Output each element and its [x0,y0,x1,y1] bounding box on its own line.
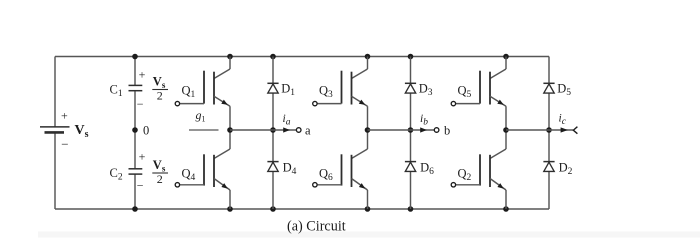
node c open chevron [573,127,577,134]
wire diode column 2 [410,57,412,210]
svg-text:+: + [139,150,146,164]
junction node c junction [546,127,552,133]
junction bottom rail at D4 col [270,206,276,212]
transistor Q2 [451,130,506,209]
junction node a junction [270,127,276,133]
svg-text:0: 0 [143,124,149,138]
junction node b junction [408,127,414,133]
diode D6 [405,161,434,178]
caption (a) Circuit [287,219,346,235]
svg-text:−: − [137,179,144,193]
label Vs/2 for C2 [152,158,168,186]
junction top rail at cap branch [132,54,138,60]
capacitor C2 [110,150,146,193]
junction bottom rail at leg2 [365,206,371,212]
junction bottom rail at leg1 [227,206,233,212]
transistor Q1 [175,57,230,131]
label g1 [196,108,206,124]
label Vs/2 for C1 [152,75,168,103]
wire g1 lead dash [189,129,219,131]
junction leg3 mid [503,127,509,133]
transistor Q6 [313,130,368,209]
svg-text:+: + [139,68,146,82]
current arrow ia [283,113,291,133]
transistor Q5 [451,57,506,131]
junction top rail at leg3 [503,54,509,60]
capacitor C1 [110,68,146,112]
wire diode column 1 [272,57,274,210]
junction top rail at leg2 [365,54,371,60]
wire left edge lower [54,133,56,209]
diode D1 [267,82,295,99]
svg-text:b: b [444,124,450,138]
svg-text:−: − [61,137,68,152]
junction top rail at D3 col [408,54,414,60]
junction bottom rail at D6 col [408,206,414,212]
diode D4 [267,161,296,178]
wire cap branch upper [134,57,136,86]
wire cap branch middle [134,91,136,168]
svg-text:2: 2 [157,172,163,186]
current arrow ib [420,113,428,133]
junction top rail at leg1 [227,54,233,60]
wire top rail [55,56,549,58]
wire bottom rail [55,208,549,210]
transistor Q4 [175,130,230,209]
node a [296,123,311,137]
diode D2 [543,161,572,178]
wire phase c [506,129,573,131]
current arrow ic [559,113,569,133]
battery Vs [40,109,89,152]
junction bottom rail at leg3 [503,206,509,212]
junction bottom rail at cap branch [132,206,138,212]
junction leg1 mid [227,127,233,133]
svg-text:+: + [61,109,68,123]
junction top rail at D1 col [270,54,276,60]
wire right edge [548,57,550,210]
svg-text:−: − [137,97,144,111]
svg-text:2: 2 [157,89,163,103]
svg-text:(a) Circuit: (a) Circuit [287,219,346,235]
diode D5 [543,82,571,99]
wire cap branch lower [134,175,136,210]
transistor Q3 [313,57,368,131]
node b [434,124,450,138]
node 0 [132,124,149,138]
junction leg2 mid [365,127,371,133]
wire phase b [368,129,435,131]
wire left edge upper [54,57,56,128]
svg-text:a: a [305,123,311,137]
diode D3 [405,82,433,99]
wire phase a [230,129,296,131]
